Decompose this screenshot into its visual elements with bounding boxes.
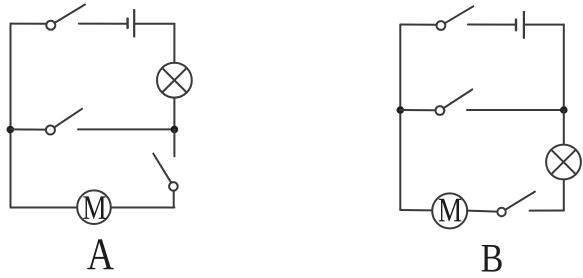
switch S1 lever xyxy=(55,5,85,23)
switch S6 lever xyxy=(505,192,535,210)
wire B left rail xyxy=(399,25,401,211)
label B xyxy=(482,245,502,272)
switch S6 (circuit B bottom) pivot circle xyxy=(497,208,505,216)
label A xyxy=(87,239,114,269)
wire A switch-to-bottom segment xyxy=(173,191,175,208)
wire B bottom fixed-contact segment xyxy=(530,210,564,212)
wire A right rail lamp-to-junction xyxy=(173,98,175,129)
wire B right rail lamp-to-bottom xyxy=(563,180,565,210)
wire B motor-to-switch segment xyxy=(468,211,497,212)
switch S3 (circuit A bottom-right) lever xyxy=(153,154,171,183)
node A-left junction dot xyxy=(7,126,15,134)
wire A top-right segment xyxy=(134,24,174,63)
motor M2 letter M xyxy=(439,199,462,222)
lamp L1 cross xyxy=(162,68,187,93)
wire B middle-left segment xyxy=(400,109,435,111)
switch S2 (circuit A middle) pivot circle xyxy=(46,126,55,135)
node B-left junction dot xyxy=(397,106,405,114)
switch S3 pivot circle xyxy=(169,182,178,191)
wire A bottom-left segment xyxy=(11,207,77,209)
motor M1 letter M xyxy=(83,196,106,219)
wire A top-left segment xyxy=(11,23,47,25)
wire B top-left segment xyxy=(400,24,436,26)
wire A top fixed-contact segment xyxy=(79,23,127,25)
lamp L1 (circuit A) circle xyxy=(157,63,192,98)
motor M1 (circuit A) circle xyxy=(77,190,111,224)
switch S1 (circuit A top) pivot circle xyxy=(46,21,55,30)
wire A middle fixed-contact segment xyxy=(78,128,174,130)
wire B bottom-left segment xyxy=(400,209,431,211)
wire A bottom-right segment xyxy=(112,207,175,209)
switch S4 lever xyxy=(445,6,474,23)
switch S5 (circuit B middle) pivot circle xyxy=(436,106,445,115)
node B-right junction dot xyxy=(560,106,568,114)
battery BT2 (circuit B) short plate xyxy=(515,20,517,31)
wire A right rail junction-to-switch xyxy=(173,129,175,156)
node A-right junction dot xyxy=(171,126,179,134)
wire B top fixed-contact segment xyxy=(468,24,515,26)
battery BT2 long plate xyxy=(523,12,525,38)
switch S5 lever xyxy=(444,89,473,108)
wire B right rail junction-to-lamp xyxy=(563,110,565,144)
battery BT1 long plate xyxy=(133,10,135,37)
switch S2 lever xyxy=(54,109,82,128)
wire A middle-left segment xyxy=(11,128,47,130)
wire B top-right segment xyxy=(524,25,564,110)
wire A left rail xyxy=(10,24,12,208)
lamp L2 cross xyxy=(551,150,576,175)
wire B middle fixed-contact segment xyxy=(467,109,564,111)
motor M2 (circuit B) circle xyxy=(432,193,467,228)
switch S4 (circuit B top) pivot circle xyxy=(437,21,446,30)
battery BT1 (circuit A) short plate xyxy=(126,19,128,28)
lamp L2 (circuit B) circle xyxy=(546,145,581,180)
